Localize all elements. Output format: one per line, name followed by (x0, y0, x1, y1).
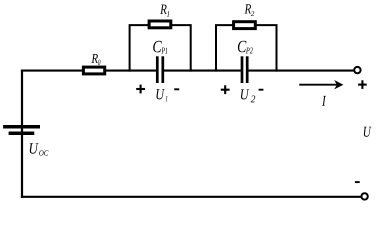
label plus of U1 (136, 85, 145, 94)
battery Uoc: short plate (9, 131, 35, 135)
capacitor Cp2 right plate (246, 56, 249, 83)
label plus of U2 (221, 85, 230, 94)
label minus of U output (355, 181, 360, 183)
label Uoc sub OC (39, 150, 48, 155)
label I current (322, 96, 326, 106)
label R1 sub 1 (167, 11, 169, 16)
label U2 sub 2 (251, 95, 255, 102)
wire: top main wire from Cp2 to positive terminal (248, 70, 353, 72)
wire: left vertical wire from top wire down to bottom wire (21, 70, 23, 198)
wire: bottom return wire to negative terminal (21, 196, 361, 198)
label Uoc "U" (30, 143, 39, 153)
capacitor Cp1 left plate (156, 56, 159, 83)
label Cp2 "C" (238, 41, 247, 53)
label R0 sub 0 (98, 60, 100, 66)
label Cp1 sub P1 (161, 48, 167, 54)
capacitor Cp2 left plate (241, 56, 244, 83)
resistor R2 box (234, 22, 256, 29)
capacitor Cp1 right plate (161, 56, 164, 83)
label U1 "U" (156, 89, 164, 99)
wire: R1-Cp1 parallel loop (130, 25, 191, 72)
resistor R1 box (149, 21, 171, 28)
label U1 sub 1 (165, 96, 167, 101)
node: negative output terminal (361, 193, 367, 199)
label plus of U output (358, 80, 367, 89)
label Cp2 sub P2 (246, 48, 253, 54)
label Cp1 "C" (153, 41, 162, 53)
wire: top main wire from source node to Cp1 left plate (21, 70, 156, 72)
wire: top main wire between Cp1 and Cp2 (164, 70, 241, 72)
label minus of U1 (174, 88, 179, 90)
current arrow I (299, 84, 338, 86)
label R2 sub 2 (251, 11, 254, 16)
label minus of U2 (259, 89, 264, 91)
label R0 "R" (91, 54, 97, 63)
resistor R0 box (83, 67, 104, 74)
label U2 "U" (241, 89, 249, 99)
label R2 "R" (245, 4, 252, 13)
wire: R2-Cp2 parallel loop (216, 25, 277, 72)
label R1 "R" (160, 5, 167, 14)
battery Uoc: long plate (3, 125, 40, 129)
node: positive output terminal (354, 67, 360, 73)
label U output (364, 127, 372, 137)
